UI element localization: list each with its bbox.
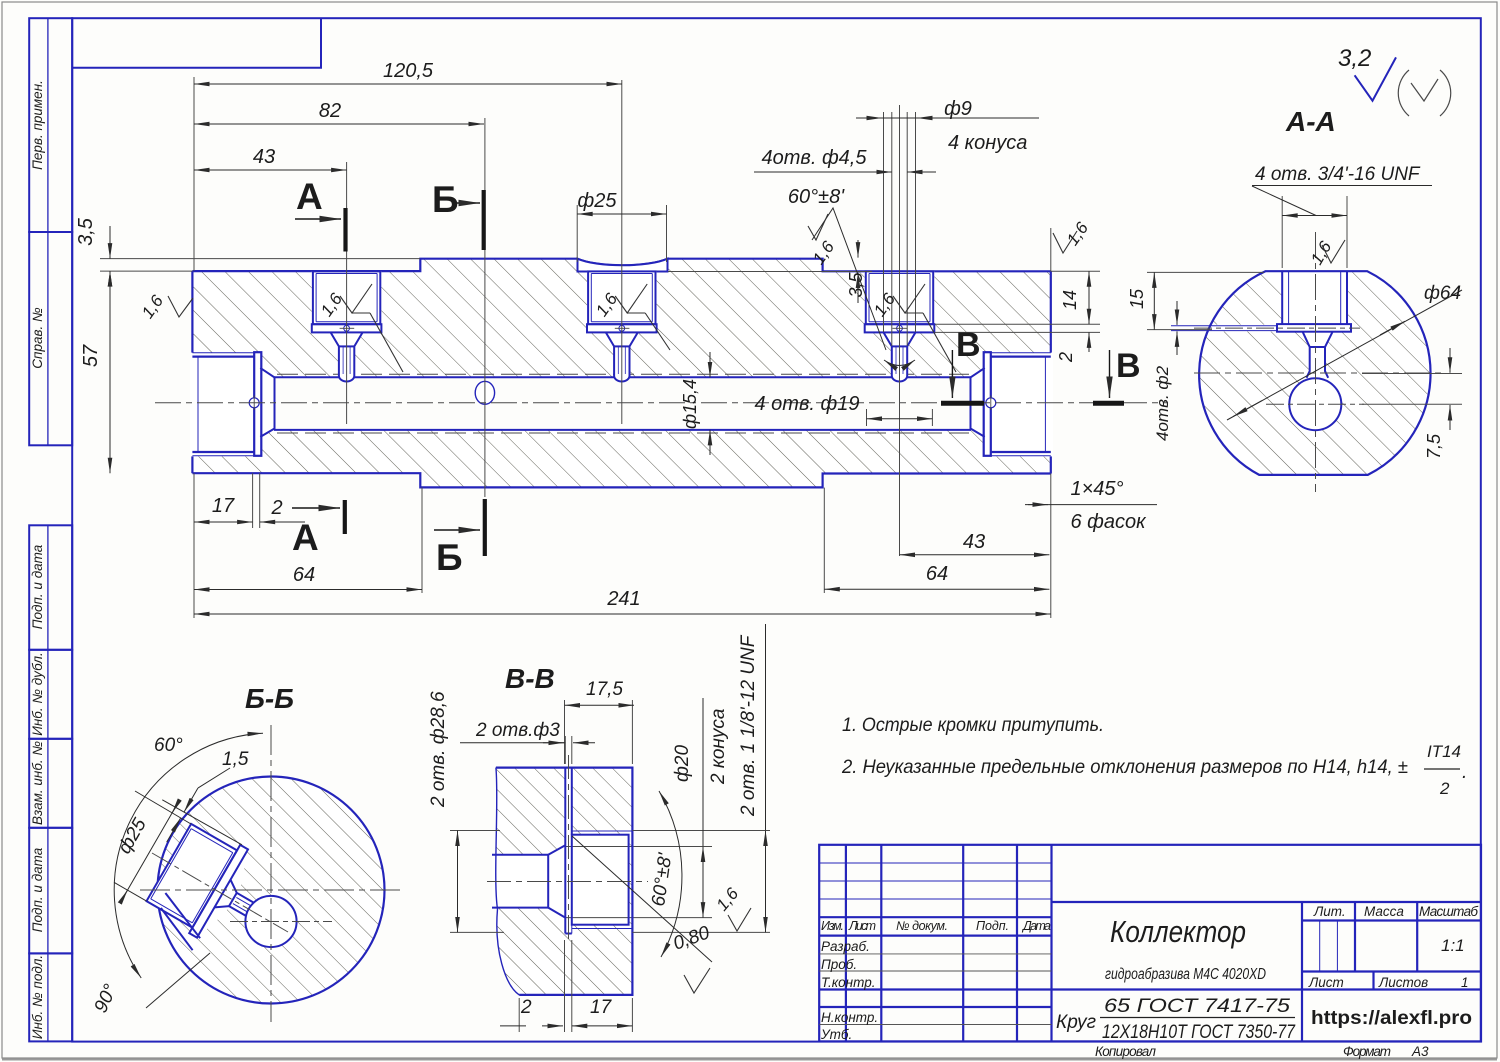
svg-text:14: 14: [1060, 290, 1080, 310]
svg-text:Перв. примен.: Перв. примен.: [30, 80, 45, 170]
svg-text:Проб.: Проб.: [821, 957, 857, 972]
svg-text:4 отв. ф19: 4 отв. ф19: [755, 393, 860, 415]
svg-text:2. Неуказанные предельные отк: 2. Неуказанные предельные отклонения раз…: [841, 757, 1408, 778]
svg-text:4 конуса: 4 конуса: [948, 132, 1027, 154]
svg-text:82: 82: [319, 100, 341, 122]
svg-text:Справ. №: Справ. №: [30, 307, 45, 369]
svg-text:ф15,4: ф15,4: [680, 379, 700, 429]
svg-text:А3: А3: [1411, 1044, 1429, 1059]
svg-text:Лист: Лист: [848, 919, 876, 933]
svg-text:12Х18Н10Т ГОСТ 7350-77: 12Х18Н10Т ГОСТ 7350-77: [1102, 1022, 1296, 1043]
svg-text:В-В: В-В: [505, 663, 555, 694]
svg-text:4отв. ф2: 4отв. ф2: [1153, 365, 1172, 441]
svg-text:3,5: 3,5: [846, 272, 866, 298]
svg-text:2 конуса: 2 конуса: [708, 709, 729, 785]
svg-text:Изм.: Изм.: [821, 919, 844, 933]
svg-text:1. Острые кромки притупить.: 1. Острые кромки притупить.: [842, 715, 1104, 736]
svg-text:Н.контр.: Н.контр.: [821, 1010, 878, 1025]
svg-text:Масса: Масса: [1364, 904, 1404, 919]
svg-text:IT14: IT14: [1427, 742, 1461, 761]
svg-text:Взам. инб. №: Взам. инб. №: [30, 741, 45, 825]
svg-text:17: 17: [590, 997, 613, 1018]
svg-text:ф20: ф20: [672, 745, 693, 782]
svg-text:Лит.: Лит.: [1313, 904, 1346, 919]
svg-text:4отв. ф4,5: 4отв. ф4,5: [762, 147, 868, 169]
svg-text:57: 57: [80, 344, 102, 367]
svg-text:3,5: 3,5: [75, 217, 97, 246]
svg-text:ф64: ф64: [1424, 283, 1461, 304]
svg-text:2: 2: [1439, 779, 1450, 798]
svg-text:17,5: 17,5: [586, 679, 623, 700]
svg-text:1×45°: 1×45°: [1070, 478, 1123, 500]
svg-text:2: 2: [1056, 352, 1076, 363]
svg-text:4 отв. 3/4'-16 UNF: 4 отв. 3/4'-16 UNF: [1255, 164, 1421, 185]
svg-text:Б: Б: [432, 179, 459, 220]
svg-text:Т.контр.: Т.контр.: [821, 975, 875, 990]
svg-text:Инб. № дубл.: Инб. № дубл.: [30, 652, 45, 736]
svg-text:Листов: Листов: [1378, 975, 1428, 990]
svg-text:2 отв. 1 1/8'-12 UNF: 2 отв. 1 1/8'-12 UNF: [738, 634, 759, 817]
svg-text:3,2: 3,2: [1338, 45, 1371, 72]
svg-text:Лист: Лист: [1308, 975, 1344, 990]
svg-text:ф9: ф9: [944, 98, 972, 120]
svg-text:Разраб.: Разраб.: [821, 939, 870, 954]
svg-text:2 отв. ф28,6: 2 отв. ф28,6: [428, 691, 449, 808]
svg-text:Б-Б: Б-Б: [245, 683, 294, 714]
svg-text:А-А: А-А: [1285, 106, 1336, 137]
svg-text:43: 43: [963, 531, 985, 553]
svg-text:Коллектор: Коллектор: [1110, 914, 1246, 949]
svg-text:А: А: [292, 517, 319, 558]
svg-text:Копировал: Копировал: [1095, 1044, 1156, 1059]
svg-text:6 фасок: 6 фасок: [1070, 511, 1147, 533]
svg-text:№ докум.: № докум.: [896, 919, 948, 933]
svg-text:64: 64: [293, 564, 315, 586]
svg-text:Круг: Круг: [1056, 1012, 1096, 1033]
svg-text:7,5: 7,5: [1424, 433, 1444, 459]
svg-text:Б: Б: [436, 537, 463, 578]
svg-text:64: 64: [926, 563, 948, 585]
svg-text:А: А: [296, 176, 323, 217]
svg-text:Инб. № подл.: Инб. № подл.: [30, 955, 45, 1039]
svg-text:120,5: 120,5: [383, 60, 434, 82]
svg-text:Подп. и дата: Подп. и дата: [30, 847, 45, 932]
svg-text:В: В: [956, 326, 981, 364]
svg-text:В: В: [1116, 347, 1141, 385]
svg-text:43: 43: [253, 146, 275, 168]
svg-text:.: .: [1462, 762, 1467, 783]
svg-text:ф25: ф25: [578, 190, 618, 212]
svg-text:60°±8': 60°±8': [788, 186, 845, 208]
svg-text:1:1: 1:1: [1441, 936, 1465, 955]
svg-text:Подп. и дата: Подп. и дата: [30, 544, 45, 629]
svg-text:Дата: Дата: [1021, 919, 1051, 933]
svg-text:2 отв.ф3: 2 отв.ф3: [475, 720, 560, 741]
svg-text:гидроабразива М4С 4020XD: гидроабразива М4С 4020XD: [1105, 966, 1266, 983]
svg-text:Утб.: Утб.: [820, 1027, 852, 1042]
svg-text:1,5: 1,5: [222, 749, 249, 770]
svg-text:Формат: Формат: [1343, 1044, 1391, 1059]
svg-text:1: 1: [1461, 975, 1469, 990]
svg-text:2: 2: [270, 497, 282, 519]
svg-text:2: 2: [520, 997, 532, 1018]
svg-text:17: 17: [212, 495, 235, 517]
svg-text:60°: 60°: [154, 735, 183, 756]
svg-text:Масштаб: Масштаб: [1419, 904, 1478, 919]
svg-text:https://alexfl.pro: https://alexfl.pro: [1311, 1008, 1472, 1029]
svg-text:241: 241: [606, 588, 640, 610]
svg-text:15: 15: [1127, 288, 1147, 309]
svg-text:Подп.: Подп.: [976, 919, 1009, 933]
svg-text:65 ГОСТ 7417-75: 65 ГОСТ 7417-75: [1104, 996, 1291, 1017]
